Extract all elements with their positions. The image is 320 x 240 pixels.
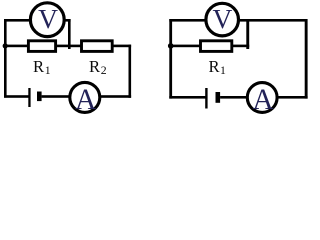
wire: top wire from voltmeter to right rail <box>238 19 308 22</box>
svg-text:2: 2 <box>101 63 107 77</box>
wire: bottom wire to battery <box>4 95 29 98</box>
wire: resistor row seg1 <box>4 45 28 48</box>
svg-text:R: R <box>33 57 45 76</box>
ammeter U4 circle <box>247 83 277 113</box>
voltmeter U3 circle <box>206 3 239 36</box>
svg-text:R: R <box>209 57 221 76</box>
wire: right rail <box>129 45 132 98</box>
wire: right rail <box>305 19 308 99</box>
wire: battery to ammeter <box>220 96 247 99</box>
battery long plate (+) <box>28 88 30 107</box>
svg-text:1: 1 <box>45 63 51 77</box>
wire: R2 to right rail <box>112 45 131 48</box>
resistor R1 box <box>28 41 55 52</box>
voltmeter U1 circle <box>30 3 64 37</box>
resistor R2 box <box>82 41 113 52</box>
wire: left rail <box>169 19 172 99</box>
svg-text:V: V <box>212 3 232 34</box>
svg-text:1: 1 <box>220 63 226 77</box>
wire: bottom wire to battery <box>169 96 206 99</box>
wire: battery to ammeter <box>42 95 70 98</box>
wire: ammeter to right rail <box>276 96 308 99</box>
wire: top wire to voltmeter <box>4 19 31 22</box>
svg-text:A: A <box>75 84 97 116</box>
battery long plate (+) <box>205 88 207 109</box>
wire: voltmeter lead vertical drop <box>246 19 249 49</box>
node: junction on left rail <box>3 43 8 48</box>
wire: resistor row seg1 <box>169 45 200 48</box>
svg-text:R: R <box>89 57 101 76</box>
battery short plate (-) <box>216 92 221 103</box>
wire: top wire to voltmeter <box>169 19 206 22</box>
node: junction on left rail <box>168 43 174 49</box>
resistor R1 box <box>201 41 232 52</box>
wire: ammeter to right rail <box>100 95 131 98</box>
battery short plate (-) <box>37 92 42 102</box>
wire: voltmeter right lead horizontal <box>63 19 71 22</box>
wire: left rail <box>4 19 7 98</box>
wire: between R1 and R2 <box>56 45 82 48</box>
ammeter U2 circle <box>70 82 100 112</box>
wire: R1 to voltmeter drop <box>232 45 249 48</box>
svg-text:A: A <box>252 84 274 116</box>
svg-text:V: V <box>38 3 58 34</box>
wire: voltmeter right lead vertical drop <box>68 19 71 49</box>
